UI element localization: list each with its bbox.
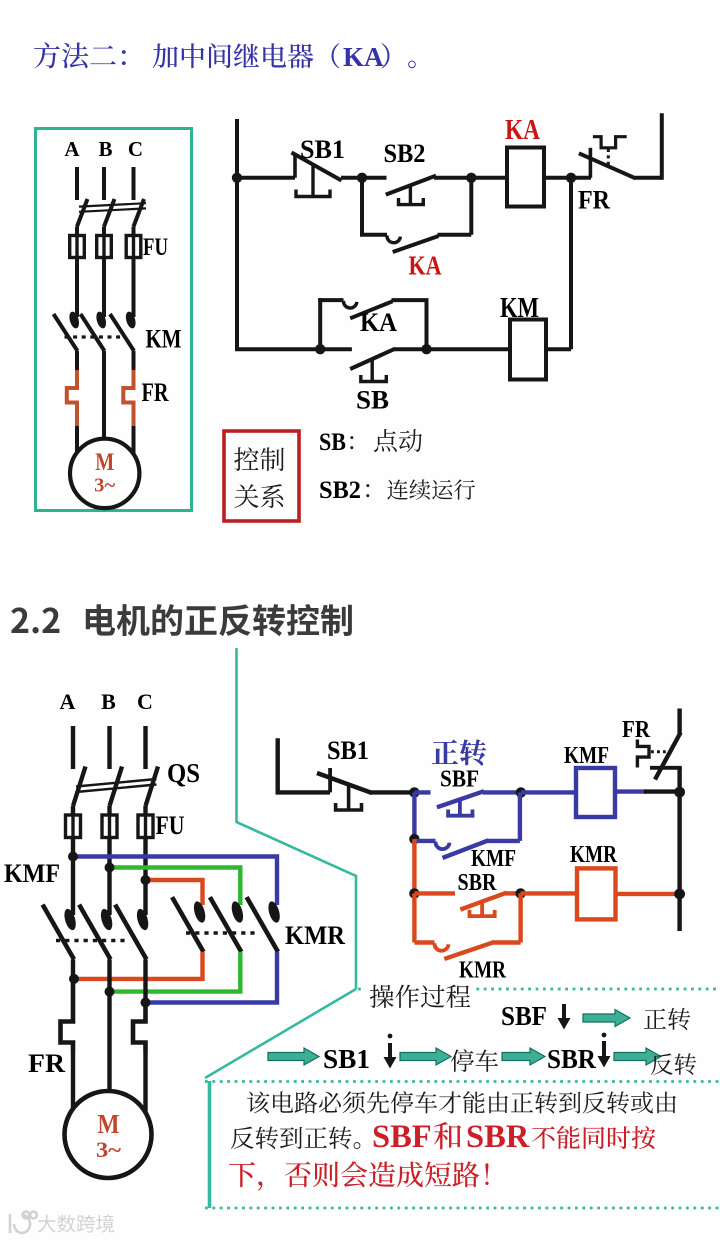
wire pole C fuse to KM (132, 258, 136, 318)
wire pole A to fuse (71, 806, 75, 816)
wire phase B lead-in (102, 167, 106, 200)
contactor coil KM (510, 320, 546, 380)
node junction (674, 889, 685, 900)
wire SB1 supply stub (278, 738, 330, 792)
fuse FU pole B (102, 815, 117, 838)
svg-text:SBF: SBF (501, 1001, 547, 1031)
contactor KMR contact pole 3 (247, 897, 282, 952)
svg-text:A: A (64, 137, 80, 161)
svg-text:C: C (128, 137, 143, 161)
svg-text:SB1: SB1 (300, 135, 345, 164)
svg-text:SB: SB (319, 429, 346, 456)
wire pole C FR to motor (143, 1053, 147, 1114)
wire orange bottom crossover to A (73, 952, 203, 979)
wire branch bottom right (438, 233, 472, 237)
node junction (566, 173, 576, 183)
wire pole C KM to FR (132, 351, 136, 372)
svg-text:QS: QS (167, 758, 200, 788)
svg-text:KMR: KMR (459, 958, 507, 984)
wire pole C to fuse (132, 227, 136, 237)
svg-text:KA: KA (343, 42, 384, 72)
svg-text:SBR: SBR (466, 1119, 530, 1155)
wire blue bottom crossover to C (146, 952, 278, 1003)
contactor KM contact pole A (54, 311, 81, 351)
fuse FU pole A (66, 815, 81, 838)
svg-text:FR: FR (622, 717, 651, 743)
label 操作过程 (365, 982, 475, 1008)
switch QS blade pole C (146, 767, 159, 807)
motor M 3~ (70, 439, 139, 508)
svg-text:KMF: KMF (564, 743, 609, 769)
KMR linkage dotted (186, 931, 258, 934)
svg-text:M: M (95, 449, 114, 476)
wire top rail to SB1 (235, 176, 295, 180)
wire phase C lead-in (143, 726, 147, 769)
relay contact KA (NO, self-lock) (387, 235, 439, 252)
wire KA coil to FR (544, 176, 591, 180)
thermal element FR pole C (133, 1003, 146, 1054)
wire branch bottom left (361, 233, 363, 237)
wire pole A fuse to KM (75, 258, 79, 318)
teal dotted line box top (205, 1080, 720, 1083)
node junction (232, 173, 242, 183)
fuse FU pole B (97, 236, 112, 258)
node junction blue bottom (141, 998, 151, 1008)
svg-text:KMR: KMR (570, 842, 618, 868)
svg-text:KMR: KMR (285, 921, 345, 950)
label 控制 (234, 447, 284, 471)
wire orange branch left riser (412, 839, 416, 893)
node junction (421, 344, 431, 354)
thermal element FR pole C (123, 370, 133, 426)
label 正转 blue (432, 739, 486, 765)
svg-text:SBF: SBF (440, 767, 479, 793)
switch QS blade pole A (73, 767, 86, 807)
svg-text:SB1: SB1 (323, 1044, 370, 1074)
label 正转 flow (644, 1008, 690, 1030)
contactor KMR contact pole 1 (172, 897, 207, 952)
contactor KMR contact pole 2 (210, 897, 245, 952)
pushbutton SB1 (NC) (292, 153, 342, 197)
node junction (516, 787, 526, 797)
motor M 3~ (65, 1091, 152, 1178)
wire pole B KMF to junction (107, 959, 111, 991)
teal box left bar (208, 1081, 212, 1208)
svg-text:B: B (98, 137, 112, 161)
wire pole C to fuse (143, 806, 147, 816)
fuse FU pole C (138, 815, 153, 838)
svg-text:SBF: SBF (372, 1119, 432, 1155)
node junction blue (68, 852, 78, 862)
wire pole A fuse down (71, 838, 75, 916)
control-relation red box (224, 431, 299, 521)
switch linkage bar (79, 203, 146, 212)
section heading 2.2 (11, 604, 352, 636)
contactor KMF contact pole B (79, 905, 114, 960)
contactor KMF contact pole C (115, 905, 150, 960)
svg-text:SB2: SB2 (384, 139, 426, 168)
wire SB2 to KA coil (434, 176, 507, 180)
wire pole A KM to FR (75, 351, 79, 372)
node junction green bottom (105, 987, 115, 997)
svg-text:KM: KM (146, 325, 182, 354)
svg-text:SBR: SBR (547, 1044, 596, 1074)
svg-text:KA: KA (505, 115, 541, 146)
contactor KM contact pole C (110, 311, 137, 351)
pushbutton SBF (NO) blue (414, 791, 521, 816)
wire KM branch riser (569, 178, 573, 349)
pushbutton SBR (NO) orange (414, 893, 520, 916)
press arrow SBR (598, 1033, 611, 1068)
pushbutton SB (NO) (350, 349, 395, 382)
svg-text:FR: FR (28, 1049, 65, 1078)
title 方法二：加中间继电器（KA）。 (34, 42, 416, 72)
svg-text:SB1: SB1 (327, 736, 369, 765)
svg-text:SB2: SB2 (319, 477, 361, 504)
main-circuit enclosure box (36, 129, 192, 511)
wire phase C lead-in (132, 167, 136, 200)
contactor coil KMR orange (577, 868, 616, 919)
wire KA-contact branch 2 left riser (318, 298, 322, 349)
block arrow to 停车 (400, 1048, 451, 1065)
wire green bottom crossover to B (110, 952, 241, 992)
thermal element FR pole A (61, 979, 74, 1053)
wire KMF coil to FR (615, 789, 680, 793)
text line2 red SBF和SBR不能同时按 (372, 1119, 655, 1155)
svg-text:SB: SB (356, 386, 389, 415)
relay contact KA2 (NO, self-lock) (343, 301, 392, 319)
contactor coil KMF blue (576, 768, 615, 817)
wire pole C fuse down (143, 838, 147, 916)
wire blue to KMF coil (521, 790, 576, 794)
press arrow SB1 (384, 1034, 397, 1069)
fuse FU pole A (70, 236, 85, 258)
wire KA-contact branch left (360, 178, 364, 235)
contactor KM contact pole B (81, 311, 108, 351)
label SB: 点动 (319, 429, 422, 456)
block arrow to 反转 (614, 1048, 661, 1065)
wire bottom rail left (235, 347, 352, 351)
svg-text:FR: FR (142, 378, 169, 407)
wire branch right riser (469, 176, 473, 235)
text line1 该电路必须先停车才能由正转到反转或由 (247, 1091, 676, 1113)
svg-text:3~: 3~ (94, 475, 116, 497)
wire pole B to fuse (107, 806, 111, 816)
node junction (409, 787, 419, 797)
teal diagonal to text box (205, 989, 356, 1078)
wire orange to KMR coil (521, 891, 577, 895)
wire pole B to fuse (102, 227, 106, 237)
svg-text:FR: FR (578, 186, 610, 215)
wire blue A-top crossover (73, 857, 277, 906)
disconnect switch blade pole C (134, 199, 145, 227)
wire blue branch left riser (412, 792, 416, 839)
label 反转 (651, 1053, 696, 1075)
svg-text:C: C (137, 689, 153, 714)
watermark logo (10, 1212, 37, 1233)
wire orange C-top crossover (146, 880, 203, 905)
wire branch 2 right riser (425, 300, 429, 349)
KM linkage dotted (65, 335, 125, 338)
disconnect switch blade pole A (77, 199, 88, 227)
wire phase B lead-in (107, 726, 111, 769)
block arrow to SBR (502, 1048, 545, 1065)
wire green B-top crossover (110, 868, 241, 906)
block arrow to SB1 (268, 1048, 319, 1065)
wire phase A lead-in (71, 726, 75, 769)
wire left supply rail (235, 119, 239, 349)
node junction (409, 888, 419, 898)
node junction orange bottom (69, 974, 79, 984)
wire pole A to fuse (75, 227, 79, 237)
svg-text:FU: FU (156, 811, 185, 840)
wire bottom rail right (394, 347, 510, 351)
label 关系 (234, 484, 283, 508)
wire KMR coil to right rail (616, 892, 679, 896)
pushbutton SB1 (NC) (317, 768, 372, 810)
contact KMR (NO self-lock) orange (414, 893, 520, 959)
wire pole A FR to motor (75, 426, 79, 453)
contact KMF (NO self-lock) blue (414, 792, 520, 858)
wire phase A lead-in (75, 167, 79, 200)
wire pole B fuse to KM (102, 258, 106, 318)
thermal element FR pole A (67, 370, 77, 426)
svg-text:SBR: SBR (458, 870, 498, 896)
svg-text:3~: 3~ (96, 1137, 122, 1162)
KMF linkage dotted (56, 939, 126, 942)
wire pole B to motor (107, 992, 111, 1093)
svg-text:FU: FU (143, 234, 168, 261)
teal dotted line box bottom (205, 1207, 720, 1210)
wire pole B fuse down (107, 838, 111, 916)
node junction (409, 834, 419, 844)
wire pole C FR to motor (132, 426, 136, 455)
teal dotted line 操作过程 (358, 988, 720, 991)
node junction orange (141, 875, 151, 885)
svg-text:KA: KA (360, 308, 397, 337)
thermal relay contact FR (NC) vertical (637, 709, 681, 780)
node junction (515, 888, 525, 898)
wire branch 2 top right (392, 298, 429, 302)
svg-text:KMF: KMF (471, 846, 516, 872)
node junction (357, 173, 367, 183)
text line3 red 下，否则会造成短路！ (229, 1161, 489, 1190)
switch QS blade pole B (110, 767, 123, 807)
wire KM coil to riser (546, 347, 571, 351)
text line2 black 反转到正转。 (231, 1126, 361, 1149)
QS linkage bar (76, 779, 157, 792)
wire pole A KMF to junction (71, 959, 75, 979)
svg-text:KA: KA (409, 251, 442, 281)
fuse FU pole C (126, 236, 141, 258)
wire pole C KMF to junction (143, 959, 147, 1002)
node junction green (105, 863, 115, 873)
wire right supply rail (660, 113, 664, 180)
contactor KMF contact pole A (43, 905, 78, 960)
wire right rail (677, 768, 681, 931)
svg-text:KM: KM (500, 293, 539, 324)
pushbutton SB2 (NO) (386, 176, 436, 205)
svg-text:KMF: KMF (4, 859, 60, 888)
label 停车 (451, 1049, 498, 1072)
disconnect switch blade pole B (104, 199, 115, 227)
watermark 大数跨境 (38, 1215, 114, 1233)
node junction (315, 344, 325, 354)
wire branch 2 top left (318, 298, 343, 302)
wire pole B KM to motor (102, 351, 106, 440)
svg-text:A: A (60, 689, 76, 714)
wire FR to right rail (634, 176, 661, 180)
wire pole A FR to motor (71, 1053, 75, 1110)
wire SB1 to node (371, 790, 414, 794)
label SB2: 连续运行 (319, 477, 475, 504)
block arrow to 正转 (583, 1010, 630, 1027)
thermal relay contact FR (NC) (579, 137, 636, 179)
relay coil KA (507, 148, 544, 207)
node junction (466, 173, 476, 183)
node junction (674, 787, 685, 798)
wire SB1 to node (341, 176, 387, 180)
svg-text:B: B (101, 689, 116, 714)
press arrow SBF (558, 1004, 571, 1030)
svg-text:M: M (98, 1109, 120, 1139)
